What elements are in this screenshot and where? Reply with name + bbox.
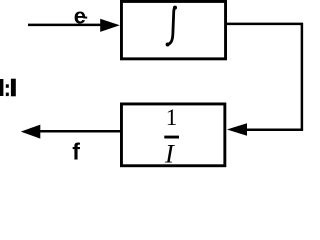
- svg-text:1: 1: [166, 105, 178, 130]
- svg-text:I: I: [164, 138, 175, 168]
- svg-text:e: e: [74, 4, 86, 29]
- svg-text:f: f: [72, 138, 80, 164]
